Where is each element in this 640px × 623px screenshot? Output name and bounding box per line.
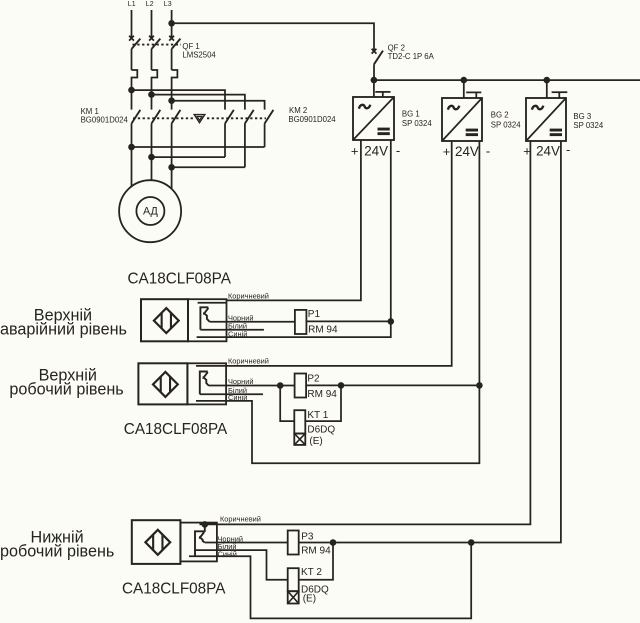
wire P1 to BG1- node: [306, 320, 390, 322]
wire KT1 left branch: [280, 386, 294, 422]
wire L2 drop to QF1: [151, 10, 153, 38]
node junction P2 right / KT1 right: [338, 382, 345, 389]
wire BG2 +24V down to sensor2 brown: [196, 141, 452, 366]
contactor KM2 pole A: [225, 110, 234, 157]
sensor 3 output stage symbol: [195, 524, 205, 555]
timer KT2 coil: [288, 568, 299, 591]
wire BG3 +24V down to sensor3 brown: [200, 141, 531, 524]
svg-text:Коричневий: Коричневий: [220, 515, 261, 524]
wire BG2 -24V down to P2 node and sensor2 blue bottom: [196, 141, 479, 463]
wire motor lead 3: [171, 167, 173, 189]
svg-text:аварійний рівень: аварійний рівень: [0, 321, 127, 339]
contactor KM linkage dotted line right part: [207, 117, 266, 119]
svg-text:LMS2504: LMS2504: [182, 50, 216, 59]
sensor 1 CA18CLF08PA body: [141, 299, 227, 341]
node junction P3 wire / KT2 branch: [330, 539, 337, 546]
node junction motor phase 1: [128, 144, 135, 151]
svg-text:SP 0324: SP 0324: [491, 121, 521, 130]
timer KT1 delay element box: [294, 434, 305, 445]
wire KM2 cross connection A to phase2: [152, 156, 226, 158]
svg-text:-: -: [396, 143, 400, 158]
wire sensor1 black to P1: [210, 321, 295, 323]
svg-text:Синій: Синій: [228, 329, 247, 338]
relay P2 coil: [295, 374, 307, 398]
svg-text:RM 94: RM 94: [301, 545, 331, 556]
wire sensor3 blue bottom run: [189, 543, 471, 619]
svg-text:Чорний: Чорний: [228, 377, 254, 386]
relay P1 coil: [295, 310, 307, 334]
wire sensor1 white stub: [200, 329, 264, 331]
svg-text:BG0901D024: BG0901D024: [288, 115, 336, 124]
power supply BG2: [442, 80, 482, 141]
breaker QF1 pole 1: [129, 36, 140, 90]
contactor KM1 pole 2: [152, 110, 161, 157]
svg-text:CA18CLF08PA: CA18CLF08PA: [122, 580, 226, 597]
power supply BG1: [353, 80, 394, 140]
wire L3 drop to QF1: [171, 10, 173, 38]
contactor KM1 pole 3: [172, 110, 181, 167]
contactor KM1 pole 1: [132, 110, 141, 147]
power supply BG3: [526, 80, 567, 141]
wire KM2 cross connection B to phase3: [172, 166, 245, 168]
breaker QF1 pole 2: [149, 36, 160, 95]
wire KT2 right branch: [299, 543, 333, 580]
svg-text:Коричневий: Коричневий: [228, 292, 269, 301]
svg-text:АД: АД: [143, 206, 159, 218]
wire BG1 +24V down to sensor1 brown: [227, 140, 361, 300]
wire sensor1 brown inner lead: [198, 302, 227, 304]
svg-text:24V: 24V: [536, 144, 560, 159]
node junction sensor2 black / KT1: [277, 382, 284, 389]
svg-text:L3: L3: [164, 1, 172, 8]
svg-text:24V: 24V: [364, 144, 388, 159]
svg-text:TD2-C 1P 6A: TD2-C 1P 6A: [388, 52, 435, 61]
svg-text:RM 94: RM 94: [307, 389, 337, 400]
breaker QF2: [372, 49, 383, 80]
wire 220V distribution bus: [374, 79, 640, 81]
svg-text:BG0901D024: BG0901D024: [81, 115, 129, 124]
node junction QF1 pole2 output: [148, 91, 155, 98]
wire BG1 -24V down to P1 and sensor1 blue: [197, 140, 391, 337]
wire feed L1 to KM2 pole A: [132, 90, 226, 110]
svg-text:-: -: [566, 142, 570, 157]
node junction P3 wire / sensor3 blue: [468, 539, 475, 546]
wire feed L2 to KM2 pole B: [152, 95, 245, 110]
svg-text:Синій: Синій: [218, 549, 237, 558]
timer KT2 delay element box: [288, 591, 299, 603]
motor AD outer circle: [119, 180, 181, 242]
svg-text:P1: P1: [308, 309, 321, 320]
sensor 1 output stage symbol: [200, 307, 209, 330]
svg-text:KT 1: KT 1: [307, 410, 328, 421]
svg-text:P2: P2: [307, 374, 320, 385]
svg-text:D6DQ: D6DQ: [307, 424, 335, 435]
breaker QF1 pole 3: [169, 36, 180, 101]
wire KM2 cross connection C to phase1: [132, 146, 265, 148]
relay P3 coil: [288, 531, 299, 555]
svg-text:(E): (E): [309, 436, 322, 447]
svg-text:BG 3: BG 3: [573, 112, 591, 121]
node junction sensor3 brown stub: [202, 521, 209, 528]
node junction QF1 pole1 output: [128, 87, 135, 94]
svg-text:+: +: [443, 144, 451, 159]
mechanical interlock triangle: [194, 115, 205, 123]
svg-text:SP 0324: SP 0324: [573, 121, 603, 130]
contactor KM2 pole B: [245, 110, 254, 167]
svg-text:CA18CLF08PA: CA18CLF08PA: [124, 421, 228, 438]
wire motor lead 2: [151, 157, 153, 180]
wire KM1 pole inputs: [131, 90, 133, 110]
svg-text:(E): (E): [303, 594, 316, 605]
node junction P2 wire / BG2-: [476, 382, 483, 389]
svg-text:+: +: [351, 144, 359, 159]
svg-text:CA18CLF08PA: CA18CLF08PA: [128, 270, 232, 287]
contactor KM2 pole C: [265, 110, 274, 147]
svg-text:BG 2: BG 2: [491, 111, 509, 120]
sensor 2 CA18CLF08PA body: [138, 363, 226, 404]
wire feed L3 to KM2 pole C: [172, 101, 265, 110]
svg-text:робочий рівень: робочий рівень: [0, 542, 114, 560]
wire motor lead 1: [131, 147, 133, 187]
node junction L3 / top bus: [168, 20, 175, 27]
wire sensor3 black to P3: [205, 542, 288, 544]
svg-text:L1: L1: [128, 1, 136, 8]
wire L1 drop to QF1: [131, 10, 133, 38]
svg-text:KM 2: KM 2: [289, 106, 307, 115]
svg-text:KT 2: KT 2: [301, 567, 322, 578]
svg-text:Коричневий: Коричневий: [228, 357, 269, 366]
node junction QF2 output bus: [371, 77, 378, 84]
svg-text:Синій: Синій: [228, 393, 247, 402]
node junction QF1 pole3 output: [168, 97, 175, 104]
svg-text:SP 0324: SP 0324: [402, 119, 432, 128]
svg-text:BG 1: BG 1: [402, 109, 420, 118]
wire P2 right to BG2- node: [306, 384, 479, 386]
contactor KM linkage dotted line left part: [133, 117, 194, 119]
wire BG3 -24V down to P3 wire: [299, 141, 561, 543]
motor AD inner circle: [136, 197, 164, 225]
wire top bus from L3 to QF2: [172, 23, 374, 51]
wire sensor3 white to KT2: [195, 550, 288, 580]
svg-text:RM 94: RM 94: [308, 324, 338, 335]
wire KT1 right branch: [305, 385, 341, 421]
svg-text:-: -: [486, 144, 490, 159]
sensor 2 output stage symbol: [200, 372, 209, 395]
breaker QF1 linkage dotted line: [133, 44, 182, 46]
node junction bus to BG3: [544, 77, 551, 84]
sensor 3 CA18CLF08PA body: [132, 520, 217, 564]
wire sensor2 black to P2: [209, 385, 295, 387]
node junction P1 / BG1-: [388, 318, 395, 325]
svg-text:L2: L2: [146, 1, 154, 8]
svg-text:робочий рівень: робочий рівень: [9, 380, 123, 398]
node junction motor phase 2: [148, 154, 155, 161]
svg-text:P3: P3: [301, 532, 314, 543]
wire sensor2 white stub: [200, 393, 263, 395]
timer KT1 coil: [294, 410, 305, 433]
node junction motor phase 3: [168, 164, 175, 171]
svg-text:24V: 24V: [455, 144, 479, 159]
node junction bus to BG2: [461, 77, 468, 84]
